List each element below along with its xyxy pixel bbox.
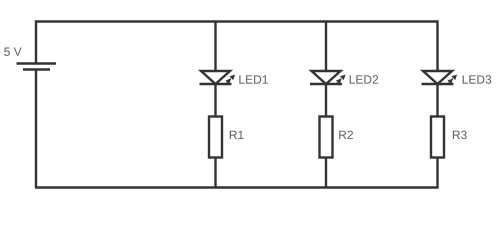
LED D1 (LED1): [200, 71, 232, 84]
wire LED1 to R1: [214, 84, 216, 117]
wire R3 to bottom rail: [436, 158, 438, 189]
label LED2: [350, 75, 378, 83]
LED D3 (LED3): [422, 71, 454, 84]
wire R2 to bottom rail: [325, 158, 327, 188]
wire right: top rail corner down to LED3: [436, 21, 438, 72]
LED2 emission arrows: [336, 75, 345, 84]
resistor R2: [320, 117, 333, 158]
resistor R1: [209, 117, 222, 158]
wire left: battery - down to bottom rail corner: [35, 70, 37, 189]
label 5 V value: [4, 48, 21, 56]
wire LED2 to R2: [325, 84, 327, 117]
LED1 emission arrows: [226, 75, 235, 84]
wire left: top rail corner down to battery +: [35, 21, 37, 64]
label R2: [339, 131, 353, 139]
label R3: [453, 131, 467, 139]
wire LED3 to R3: [436, 84, 438, 117]
wire R1 to bottom rail: [214, 158, 216, 188]
battery V1 (5 V): [17, 64, 57, 70]
LED D2 (LED2): [310, 71, 342, 84]
label R1: [230, 131, 244, 139]
wire top rail: [35, 20, 439, 22]
label LED3: [463, 75, 492, 83]
LED3 emission arrows: [448, 75, 457, 84]
resistor R3: [431, 117, 444, 158]
label LED1: [239, 75, 267, 83]
wire branch 2 top rail to LED2: [325, 22, 327, 72]
wire branch 1 top rail to LED1: [214, 22, 216, 72]
wire bottom rail: [35, 186, 439, 188]
